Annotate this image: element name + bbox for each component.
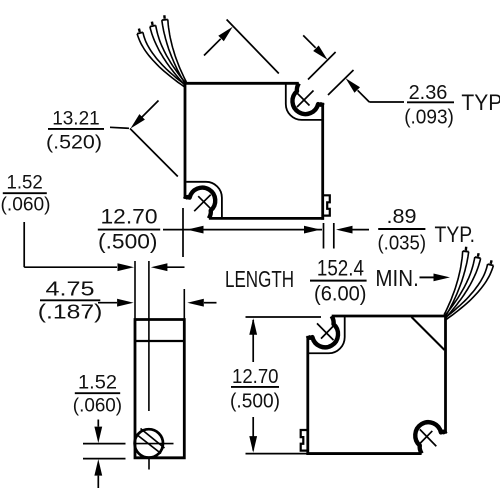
- dim 2.36 slot edge line 2: [328, 70, 354, 95]
- top view: body bottom edge: [306, 452, 421, 455]
- top view: bottom-left notch center mark X: [420, 429, 437, 446]
- top view: lead wire 3: [162, 20, 185, 83]
- dim 152.4 fraction bar: [310, 280, 367, 282]
- top view: body left edge: [184, 82, 187, 199]
- MIN arrow pointing at leads: [420, 276, 434, 278]
- top view: lead wire 2: [150, 27, 185, 85]
- svg-text:(.500): (.500): [230, 389, 280, 412]
- top view: top-right corner cut profile: [309, 316, 345, 353]
- top view: bottom-left corner cut profile: [186, 182, 222, 219]
- top view: bottom-left notch center mark X: [194, 195, 211, 212]
- dim 1.52 leader vertical: [23, 222, 25, 267]
- dim 4.75 fraction bar: [40, 299, 100, 301]
- top view: body right edge: [321, 103, 324, 220]
- right dim 12.70 down arrowhead: [249, 436, 257, 453]
- svg-text:2.36: 2.36: [409, 82, 448, 104]
- right dim 12.70 extension bottom: [246, 453, 307, 455]
- top view: top-right notch center mark X: [317, 323, 334, 340]
- svg-text:(.500): (.500): [98, 230, 158, 253]
- dim 1.52 fraction bar: [3, 192, 47, 194]
- side view: adjustment screw circle: [135, 429, 163, 457]
- dim 1.52 leader horizontal + right-pointing arrowhead: [24, 266, 117, 268]
- dim 13.21 arrow toward upper-right notch line: [204, 39, 221, 56]
- top view: body left edge: [444, 315, 447, 434]
- side view: right edge extension: [183, 289, 185, 320]
- dim 13.21 leader tick: [110, 127, 129, 128]
- dim 2.36 arrow pointing NW at line2: [358, 90, 370, 102]
- right view: corner chamfer line at lead exit: [412, 317, 445, 350]
- svg-text:13.21: 13.21: [52, 108, 99, 130]
- svg-text:1.52: 1.52: [78, 371, 117, 393]
- top view: body bottom edge: [209, 217, 324, 220]
- dim 13.21 arrow toward lower-left notch line: [141, 101, 159, 119]
- top view: top-right corner cut profile: [286, 83, 322, 120]
- side view: slot reference line: [148, 261, 150, 411]
- side view: housing outline: [135, 320, 184, 458]
- side view: screw slot hatch line 1: [136, 434, 161, 454]
- dim 1.52 tick lower: [83, 458, 126, 460]
- svg-text:TYP.: TYP.: [435, 222, 476, 247]
- right dim 12.70 fraction bar: [231, 386, 279, 388]
- side view: screw slot hatch line 2: [141, 429, 165, 449]
- side view: cover parting line: [135, 340, 184, 342]
- svg-text:(.035): (.035): [378, 232, 427, 254]
- top view: top-right crimp notch: [308, 316, 338, 347]
- dim 2.36 arrow pointing SE at line1: [303, 35, 315, 47]
- svg-text:12.70: 12.70: [101, 205, 158, 229]
- top view: lead wire 1: [137, 34, 184, 87]
- dim 4.75 left-pointing arrow: [204, 302, 217, 304]
- dim 1.52 down arrow: [97, 420, 99, 427]
- svg-text:(.060): (.060): [73, 395, 122, 417]
- dim 12.70 dimension line: [163, 229, 322, 231]
- top view: top-right notch center mark X: [297, 91, 314, 108]
- svg-text:1.52: 1.52: [7, 172, 43, 194]
- right dim 12.70 up arrowhead: [249, 318, 257, 335]
- right dim 12.70 dimension line lower: [252, 417, 254, 451]
- svg-text:(.187): (.187): [38, 301, 103, 323]
- dim .89 tick B: [333, 223, 335, 249]
- dim 12.70 fraction bar: [98, 229, 160, 231]
- dim 2.36 fraction bar: [407, 101, 454, 103]
- svg-text:12.70: 12.70: [232, 365, 279, 388]
- dim 1.52 bottom fraction bar: [75, 392, 120, 394]
- dim .89 fraction bar: [378, 228, 425, 230]
- top view: bottom-left crimp notch: [415, 422, 445, 453]
- svg-text:152.4: 152.4: [317, 255, 364, 280]
- dim 1.52 up arrow: [97, 476, 99, 488]
- top view: lead wire 1: [446, 266, 493, 320]
- dim 2.36 leader horizontal: [369, 101, 404, 103]
- top view: side terminal tab: [301, 430, 308, 451]
- top view: top-right crimp notch: [292, 83, 322, 114]
- dim 1.52 tick upper: [83, 443, 126, 445]
- notch diagonal centerline (lower-left, extended): [130, 129, 178, 177]
- right dim 12.70 extension top: [246, 316, 322, 318]
- top view: body top edge: [332, 315, 447, 318]
- dim 12.70 right arrowhead: [304, 226, 321, 234]
- dim 1.52 left-pointing arrow: [167, 266, 185, 268]
- side view: left edge extension: [134, 261, 136, 320]
- top view: side terminal tab: [323, 195, 330, 215]
- svg-text:(6.00): (6.00): [314, 282, 367, 306]
- top view: lead wire 2: [446, 258, 481, 317]
- dim 12.70 extension line right / .89 tick A: [323, 223, 325, 249]
- top view: body right edge: [306, 336, 309, 455]
- side view: screw vertical centerline below: [148, 458, 150, 470]
- right dim 12.70 dimension line upper: [252, 320, 254, 362]
- dim 2.36 slot edge line 1: [308, 52, 336, 80]
- svg-text:(.520): (.520): [46, 131, 102, 153]
- svg-text:(.093): (.093): [404, 106, 454, 128]
- dim 13.21 fraction bar: [48, 128, 104, 130]
- top view: lead wire 3: [446, 252, 469, 316]
- svg-text:4.75: 4.75: [46, 278, 95, 300]
- svg-text:TYP.: TYP.: [461, 90, 500, 115]
- top view: bottom-left crimp notch: [185, 188, 215, 219]
- dim 12.70 extension line left: [182, 208, 184, 257]
- svg-text:MIN.: MIN.: [375, 265, 418, 291]
- top view: body top edge: [184, 82, 299, 85]
- notch diagonal centerline (upper-right, extended): [227, 20, 279, 74]
- svg-text:LENGTH: LENGTH: [225, 266, 294, 292]
- svg-text:.89: .89: [387, 206, 417, 228]
- svg-text:(.060): (.060): [1, 194, 51, 216]
- dim 4.75 right-pointing arrow: [98, 302, 117, 304]
- dim .89 arrow pointing left: [351, 229, 369, 231]
- dim 12.70 left arrowhead: [187, 226, 204, 234]
- side view: screw horizontal centerline: [136, 443, 174, 445]
